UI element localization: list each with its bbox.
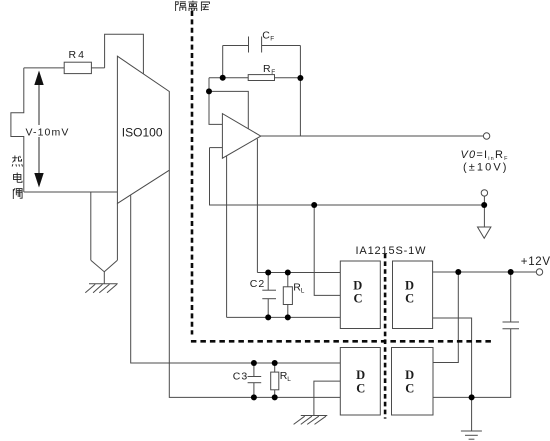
svg-text:+12V: +12V (521, 256, 550, 268)
svg-text:C: C (405, 292, 414, 306)
svg-text:V0=IinRF: V0=IinRF (461, 149, 509, 162)
svg-text:C: C (353, 292, 362, 306)
svg-text:C: C (405, 381, 414, 395)
svg-text:D: D (356, 368, 365, 382)
svg-text:L: L (301, 288, 305, 295)
svg-text:D: D (405, 279, 414, 293)
svg-text:C: C (356, 381, 365, 395)
svg-text:C2: C2 (250, 278, 265, 290)
svg-text:R: R (263, 63, 271, 75)
svg-text:ISO100: ISO100 (122, 126, 163, 140)
svg-text:C3: C3 (233, 371, 248, 383)
svg-text:L: L (287, 376, 291, 383)
svg-text:D: D (353, 279, 362, 293)
svg-text:F: F (271, 69, 275, 76)
svg-text:V-10mV: V-10mV (26, 126, 70, 138)
svg-text:R4: R4 (69, 49, 86, 61)
svg-text:C: C (262, 29, 270, 41)
svg-text:IA1215S-1W: IA1215S-1W (356, 245, 427, 257)
svg-text:D: D (405, 368, 414, 382)
svg-text:F: F (270, 36, 274, 43)
svg-text:(±10V): (±10V) (463, 162, 509, 174)
